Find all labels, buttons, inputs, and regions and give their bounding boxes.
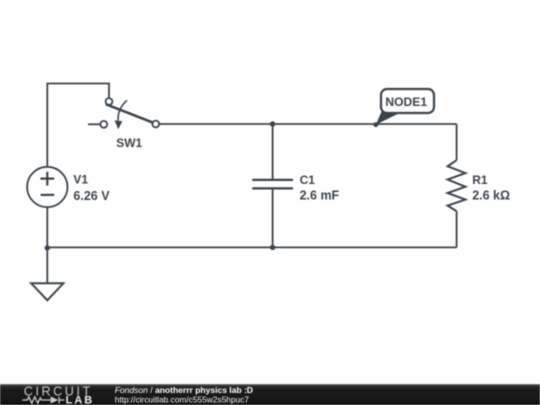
svg-text:SW1: SW1 — [116, 136, 142, 150]
svg-text:http://circuitlab.com/c555w2s5: http://circuitlab.com/c555w2s5hpuc7 — [115, 395, 250, 405]
svg-text:V1: V1 — [73, 173, 88, 187]
svg-text:6.26 V: 6.26 V — [73, 189, 110, 203]
svg-text:R1: R1 — [472, 173, 488, 187]
svg-text:Fondson / anotherrr physics la: Fondson / anotherrr physics lab :D — [115, 385, 253, 395]
svg-text:2.6 mF: 2.6 mF — [300, 188, 340, 202]
svg-text:NODE1: NODE1 — [385, 95, 427, 109]
svg-text:2.6 kΩ: 2.6 kΩ — [472, 189, 510, 203]
svg-text:LAB: LAB — [66, 394, 95, 405]
svg-text:C1: C1 — [300, 173, 316, 187]
